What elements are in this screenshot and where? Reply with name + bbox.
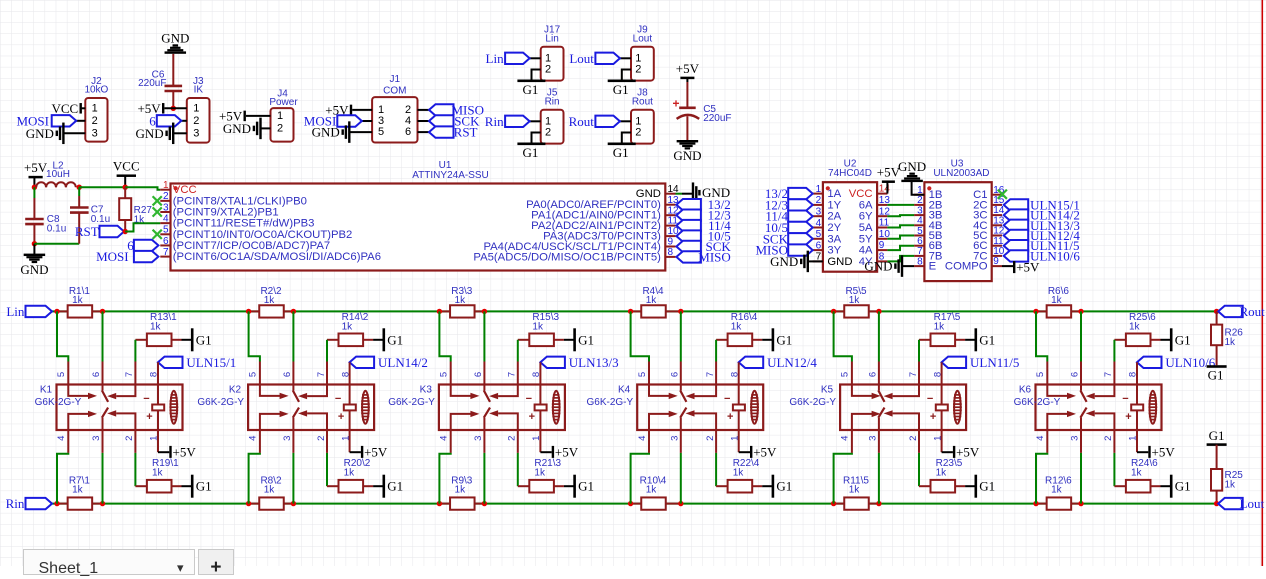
- junction bottom rail right K3: [482, 501, 487, 506]
- resistor R8\2: [249, 497, 294, 509]
- net port ULN10/6 at K6 pin 8: [1137, 355, 1216, 370]
- svg-text:1: 1: [816, 184, 822, 195]
- junction top rail right K3: [482, 309, 487, 314]
- ground G1 at R19\1: [191, 475, 212, 498]
- op-amp U3 ULN2003AD body: [924, 182, 991, 281]
- wire K3 pin 4 to rail: [439, 430, 450, 504]
- junction top rail right K4: [678, 309, 683, 314]
- svg-text:6: 6: [91, 372, 102, 377]
- label R22\4 1k: [733, 458, 760, 479]
- wire R14\2 to K2 pin 7: [326, 340, 328, 385]
- svg-text:6: 6: [282, 372, 293, 377]
- label C8 0.1u: [47, 214, 66, 234]
- svg-text:+: +: [727, 411, 733, 423]
- svg-text:G6K-2G-Y: G6K-2G-Y: [1014, 397, 1061, 408]
- svg-text:1: 1: [635, 52, 641, 64]
- svg-text:RST: RST: [75, 224, 99, 239]
- junction top rail right K6: [1078, 309, 1083, 314]
- svg-text:Lout: Lout: [569, 51, 594, 66]
- svg-text:+5V: +5V: [1152, 444, 1176, 459]
- capacitor C6: [165, 54, 183, 109]
- svg-text:8: 8: [1128, 372, 1139, 377]
- svg-text:MOSI: MOSI: [96, 249, 129, 264]
- ground G1 at R14\2: [383, 328, 404, 351]
- ground GND above C6: [161, 31, 189, 54]
- ground GND at J4 pin 2: [223, 118, 262, 139]
- svg-text:9: 9: [879, 240, 885, 251]
- svg-text:Rin: Rin: [485, 114, 504, 129]
- svg-text:7: 7: [908, 372, 919, 377]
- svg-text:1k: 1k: [72, 485, 84, 496]
- wire U1 pin 14 to GND: [676, 193, 694, 195]
- ground GND at J3 pin 3: [136, 123, 175, 145]
- svg-text:+5V: +5V: [173, 444, 197, 459]
- svg-text:8: 8: [531, 372, 542, 377]
- wire R20\2 to G1: [373, 485, 383, 487]
- net port ULN12/4 at K4 pin 8: [739, 355, 818, 370]
- svg-text:Lout: Lout: [1240, 496, 1265, 511]
- wire K3 pin 3 to rail: [483, 430, 485, 504]
- svg-text:1k: 1k: [1131, 468, 1143, 479]
- label R1\1 1k: [69, 286, 91, 306]
- net port Lin at J17 pin 1: [486, 51, 530, 66]
- resistor R16\4: [716, 334, 762, 347]
- junction top rail right K2: [291, 309, 296, 314]
- svg-text:2: 2: [545, 127, 551, 139]
- junction at J3 pin1 / C6: [171, 106, 176, 111]
- ground G1 at R16\4: [772, 328, 793, 351]
- wire L2 to VCC node: [79, 186, 125, 188]
- svg-text:5: 5: [248, 372, 259, 377]
- junction L2 / C7 node: [77, 185, 82, 190]
- svg-text:2: 2: [545, 64, 551, 76]
- resistor R2\2: [249, 305, 294, 317]
- svg-text:7: 7: [124, 372, 135, 377]
- ground G1 above R25: [1207, 428, 1227, 446]
- junction Lout: [1214, 501, 1219, 506]
- svg-text:8: 8: [668, 247, 674, 258]
- junction top rail left K5: [831, 309, 836, 314]
- svg-text:K6: K6: [1019, 385, 1032, 396]
- label U3 ULN2003AD: [933, 158, 989, 179]
- label K5 G6K-2G-Y: [789, 385, 836, 408]
- net flag +5V at K6 pin 1: [1137, 430, 1175, 459]
- svg-text:7: 7: [705, 372, 716, 377]
- svg-text:VCC: VCC: [113, 159, 140, 174]
- net flag +5V at K1 pin 1: [158, 430, 196, 459]
- svg-text:3: 3: [193, 127, 199, 139]
- relay K1 G6K-2G-Y body: [57, 385, 183, 431]
- label L2 10uH: [46, 161, 70, 180]
- add sheet button: [198, 549, 234, 575]
- svg-text:1k: 1k: [849, 485, 861, 496]
- ground GND below C8: [20, 254, 48, 277]
- junction top rail left K2: [246, 309, 251, 314]
- wire ULN10/6 to K6 pin 8: [1136, 362, 1138, 384]
- wire K5 pin 3 to rail: [878, 430, 880, 504]
- net port ULN11/5 at U3 pin 11: [1004, 238, 1080, 253]
- net port Rout: [1218, 304, 1265, 319]
- label C7 0.1u: [91, 205, 110, 225]
- svg-text:1k: 1k: [455, 485, 467, 496]
- svg-text:−: −: [526, 393, 532, 405]
- net port MOSI at J2 pin 2: [16, 113, 76, 128]
- U1 right pin numbers: [668, 184, 680, 258]
- svg-text:GND: GND: [136, 126, 164, 141]
- svg-text:Lin: Lin: [545, 34, 558, 45]
- svg-text:1k: 1k: [1225, 480, 1237, 491]
- svg-text:1: 1: [545, 52, 551, 64]
- wire rail to K2 pin 6: [292, 311, 294, 384]
- svg-text:0.1u: 0.1u: [47, 223, 66, 234]
- wire R14\2 to G1: [373, 339, 383, 341]
- label K1 G6K-2G-Y: [35, 385, 82, 408]
- ground G1 at R23\5: [975, 475, 996, 498]
- label R26 1k: [1225, 328, 1244, 349]
- svg-text:2: 2: [816, 195, 822, 206]
- svg-text:5A: 5A: [859, 222, 873, 234]
- label R23\5 1k: [936, 458, 963, 479]
- capacitor C5: [672, 97, 699, 141]
- ground G1 at R24\6: [1170, 475, 1191, 498]
- wire C8 to C7 bottom: [34, 243, 79, 245]
- svg-text:−: −: [927, 393, 933, 405]
- net port MISO at J1 pin 2: [429, 102, 484, 117]
- net flag VCC: [113, 159, 140, 177]
- ground G1 at R20\2: [383, 475, 404, 498]
- svg-text:GND: GND: [827, 256, 852, 268]
- label R21\3 1k: [534, 458, 561, 479]
- svg-text:GND: GND: [864, 259, 892, 274]
- svg-text:1k: 1k: [72, 295, 84, 306]
- wire ULN15/1 to K1 pin 8: [157, 362, 159, 384]
- U1 left pin names: [173, 184, 381, 263]
- junction top rail left K1: [54, 309, 59, 314]
- U2 right pin numbers: [879, 184, 891, 263]
- wire +5V stem: [33, 177, 35, 187]
- relay K5 G6K-2G-Y body: [840, 385, 966, 431]
- svg-text:G1: G1: [578, 479, 594, 494]
- svg-text:4: 4: [840, 436, 851, 441]
- label C6 220uF: [138, 70, 166, 89]
- svg-text:9: 9: [668, 237, 674, 248]
- K4 pin numbers: [637, 372, 741, 441]
- svg-text:GND: GND: [20, 262, 48, 277]
- svg-text:74HC04D: 74HC04D: [828, 168, 872, 179]
- K1 pin numbers: [56, 372, 160, 441]
- svg-text:RST: RST: [454, 125, 478, 140]
- junction top rail left K6: [1033, 309, 1038, 314]
- label K3 G6K-2G-Y: [388, 385, 435, 408]
- net port MISO at U2 pin 6: [755, 243, 812, 258]
- K2 pin numbers: [248, 372, 352, 441]
- svg-text:+: +: [529, 411, 535, 423]
- net port ULN14/2 at U3 pin 14: [1004, 208, 1080, 223]
- net port Rin: [6, 496, 52, 511]
- svg-text:G1: G1: [578, 332, 594, 347]
- svg-text:6: 6: [670, 372, 681, 377]
- label J9 Lout: [633, 24, 653, 44]
- svg-text:7: 7: [1103, 372, 1114, 377]
- junction top rail right K5: [876, 309, 881, 314]
- svg-text:1k: 1k: [1051, 295, 1063, 306]
- svg-text:+: +: [1125, 411, 1131, 423]
- net flag +5V at U2 pin 14: [877, 165, 901, 194]
- U2 right pin names: [849, 188, 873, 268]
- U2 left pin numbers: [816, 184, 822, 263]
- wire K4 pin 3 to rail: [680, 430, 682, 504]
- wire rail to K4 pin 6: [680, 311, 682, 384]
- J1 pin numbers: [378, 104, 411, 138]
- junction bottom rail left K2: [246, 501, 251, 506]
- connector J9: [620, 47, 654, 81]
- junction bottom rail right K4: [678, 501, 683, 506]
- label C5 220uF: [703, 104, 731, 124]
- svg-text:1: 1: [635, 115, 641, 127]
- net port ULN12/4 at U3 pin 12: [1004, 228, 1081, 243]
- svg-text:3: 3: [473, 436, 484, 441]
- net flag +5V at K3 pin 1: [540, 430, 578, 459]
- svg-text:2: 2: [1103, 436, 1114, 441]
- svg-text:MISO: MISO: [698, 249, 731, 264]
- resistor R25: [1211, 445, 1222, 504]
- resistor R5\5: [834, 305, 879, 317]
- U3 right pin stubs: [992, 195, 1002, 266]
- svg-text:GND: GND: [898, 159, 926, 174]
- U3 no-connect mark pin 16: [998, 190, 1007, 199]
- svg-text:GND: GND: [770, 254, 798, 269]
- resistor R15\3: [518, 334, 564, 347]
- wire R17\5 to G1: [965, 339, 975, 341]
- wire RST node to U1 pin 4: [125, 223, 160, 231]
- net flag +5V at K2 pin 1: [350, 430, 388, 459]
- svg-text:7: 7: [507, 372, 518, 377]
- svg-text:−: −: [143, 393, 149, 405]
- svg-text:ULN13/3: ULN13/3: [569, 355, 619, 370]
- wire K1 pin 2 to R19\1: [135, 430, 147, 486]
- label R5\5 1k: [845, 286, 867, 306]
- label R20\2 1k: [344, 458, 371, 479]
- net port ULN15/1 at U3 pin 15: [1004, 197, 1080, 212]
- svg-text:2: 2: [507, 436, 518, 441]
- wire R16\4 to G1: [762, 339, 772, 341]
- wire K6 pin 3 to rail: [1080, 430, 1082, 504]
- U2 left pin stubs: [813, 194, 823, 262]
- net flag +5V at J1 pin 1: [325, 102, 352, 117]
- svg-text:1k: 1k: [342, 321, 354, 332]
- resistor R14\2: [327, 334, 373, 347]
- wire K2 pin 2 to R20\2: [327, 430, 339, 486]
- label J1 COM: [383, 74, 406, 97]
- inductor L2: [36, 182, 76, 187]
- net port ULN10/6 at U3 pin 10: [1004, 248, 1081, 263]
- J9 pin numbers: [635, 52, 641, 75]
- svg-text:6: 6: [1070, 372, 1081, 377]
- wire rail to K5 pin 6: [878, 311, 880, 384]
- svg-text:3: 3: [163, 202, 169, 213]
- svg-text:7: 7: [316, 372, 327, 377]
- junction top rail left K3: [437, 309, 442, 314]
- svg-text:1k: 1k: [646, 295, 658, 306]
- svg-text:G6K-2G-Y: G6K-2G-Y: [35, 397, 82, 408]
- label J17 Lin: [544, 24, 561, 44]
- wire K3 pin 2 to R21\3: [518, 430, 530, 486]
- net port Lin: [6, 304, 52, 319]
- svg-text:1k: 1k: [1051, 485, 1063, 496]
- K3 pin numbers: [439, 372, 543, 441]
- connector J3: [165, 98, 210, 143]
- svg-text:2: 2: [193, 115, 199, 127]
- svg-text:2: 2: [163, 191, 169, 202]
- ground G1 at J8 pin 2: [608, 143, 636, 160]
- ground G1 at J17 pin 2: [517, 80, 545, 97]
- wire rail to K6 pin 5: [1036, 311, 1047, 384]
- label R6\6 1k: [1048, 286, 1070, 306]
- svg-text:4: 4: [637, 436, 648, 441]
- U1 right pin names: [473, 188, 661, 263]
- relay K3 G6K-2G-Y body: [439, 385, 565, 431]
- connector J1: [349, 97, 429, 142]
- capacitor C8: [25, 187, 44, 244]
- wire rail to K6 pin 6: [1080, 311, 1082, 384]
- net port 12/3 at U2 pin 2: [765, 197, 813, 212]
- wire K1 pin 4 to rail: [57, 430, 68, 504]
- label R25\6 1k: [1129, 312, 1156, 333]
- net port 6 at J3 pin 2: [149, 113, 181, 128]
- net port Rin at J5 pin 1: [485, 114, 530, 129]
- net flag +5V at J3 pin 1: [137, 101, 164, 116]
- net port RST: [75, 224, 124, 239]
- svg-text:8: 8: [340, 372, 351, 377]
- J8 pin numbers: [635, 115, 641, 138]
- svg-text:5: 5: [840, 372, 851, 377]
- svg-text:G1: G1: [613, 82, 629, 97]
- svg-text:4: 4: [56, 436, 67, 441]
- svg-text:2: 2: [635, 64, 641, 76]
- resistor R1\1: [57, 305, 103, 317]
- svg-text:3: 3: [868, 436, 879, 441]
- svg-text:Rout: Rout: [1240, 304, 1266, 319]
- resistor R24\6: [1126, 480, 1161, 493]
- resistor R21\3: [529, 480, 564, 493]
- svg-text:G1: G1: [522, 145, 538, 160]
- svg-text:+: +: [930, 411, 936, 423]
- wire rail to K1 pin 5: [57, 311, 68, 384]
- svg-text:1k: 1k: [936, 468, 948, 479]
- svg-text:1k: 1k: [733, 468, 745, 479]
- svg-text:K3: K3: [420, 385, 433, 396]
- wire R15\3 to G1: [564, 339, 574, 341]
- wire ULN12/4 to K4 pin 8: [738, 362, 740, 384]
- wire R22\4 to G1: [762, 485, 772, 487]
- svg-text:8: 8: [917, 256, 923, 267]
- svg-text:5: 5: [163, 225, 169, 236]
- svg-text:5: 5: [439, 372, 450, 377]
- wire K6 pin 2 to R24\6: [1114, 430, 1126, 486]
- label R11\5 1k: [843, 475, 869, 495]
- svg-text:2: 2: [635, 127, 641, 139]
- ground G1 at R22\4: [772, 475, 793, 498]
- svg-text:K1: K1: [40, 385, 53, 396]
- svg-text:4A: 4A: [859, 245, 873, 257]
- svg-text:8: 8: [729, 372, 740, 377]
- svg-text:1k: 1k: [1225, 337, 1237, 348]
- wire top rail Lin to Rout: [52, 310, 1217, 312]
- U1 right pin stubs: [665, 194, 675, 257]
- svg-text:G6K-2G-Y: G6K-2G-Y: [388, 397, 435, 408]
- junction C8 / GND: [32, 241, 37, 246]
- relay K6 G6K-2G-Y body: [1036, 385, 1162, 431]
- svg-text:2: 2: [908, 436, 919, 441]
- wire VCC node to U1 pin 1: [125, 187, 160, 190]
- junction bottom rail left K5: [831, 501, 836, 506]
- junction bottom rail right K6: [1078, 501, 1083, 506]
- svg-text:6: 6: [868, 372, 879, 377]
- wire C8 to GND: [33, 244, 35, 254]
- wire K4 pin 4 to rail: [631, 430, 649, 504]
- resistor R4\4: [631, 305, 681, 317]
- sheet tab Sheet_1: [23, 549, 195, 575]
- U3 left pin numbers: [917, 185, 923, 267]
- svg-text:5: 5: [378, 126, 384, 138]
- label U1 ATTINY24A-SSU: [412, 160, 489, 181]
- resistor R25\6: [1114, 334, 1160, 347]
- junction bottom rail left K1: [54, 501, 59, 506]
- resistor R9\3: [439, 497, 484, 509]
- wire K2 pin 3 to rail: [292, 430, 294, 504]
- net port ULN13/3 at K3 pin 8: [540, 355, 618, 370]
- svg-text:+5V: +5V: [364, 444, 388, 459]
- svg-text:3: 3: [91, 436, 102, 441]
- label R19\1 1k: [152, 458, 179, 479]
- label K6 G6K-2G-Y: [1014, 385, 1061, 408]
- svg-text:1k: 1k: [532, 321, 544, 332]
- U3 right pin names: [945, 189, 988, 272]
- op-amp U2 74HC04D body: [823, 182, 877, 272]
- svg-text:G1: G1: [196, 332, 212, 347]
- svg-text:1: 1: [92, 102, 98, 114]
- net port MOSI to U1 pin 7: [96, 249, 158, 264]
- resistor R17\5: [919, 334, 965, 347]
- label R27 1k: [134, 205, 153, 226]
- svg-text:K5: K5: [821, 385, 834, 396]
- net port 11/4 at U2 pin 3: [765, 209, 812, 224]
- svg-text:4: 4: [439, 436, 450, 441]
- ground GND at U3 pin 8: [864, 255, 914, 277]
- wire R19\1 to G1: [182, 485, 192, 487]
- svg-text:1k: 1k: [344, 468, 356, 479]
- net port MISO at U1 pin 8: [676, 249, 730, 264]
- ground GND below C5: [673, 140, 701, 163]
- J17 pin numbers: [545, 52, 551, 75]
- svg-text:4: 4: [1035, 436, 1046, 441]
- ground G1 at J5 pin 2: [517, 143, 545, 160]
- net port MOSI at J1 pin 3: [304, 114, 362, 129]
- svg-text:1k: 1k: [1129, 321, 1141, 332]
- net port 10/5 at U2 pin 4: [765, 220, 813, 235]
- svg-text:G6K-2G-Y: G6K-2G-Y: [587, 397, 634, 408]
- svg-text:6: 6: [163, 236, 169, 247]
- svg-text:Lout: Lout: [633, 34, 653, 45]
- junction +5V / L2 / C8: [32, 185, 37, 190]
- ground G1 at R15\3: [573, 328, 594, 351]
- wire R25\6 to K6 pin 7: [1113, 340, 1115, 385]
- svg-text:G1: G1: [776, 479, 792, 494]
- sheet border: [1261, 0, 1263, 566]
- wire ULN13/3 to K3 pin 8: [539, 362, 541, 384]
- junction bottom rail right K1: [100, 501, 105, 506]
- svg-text:Lin: Lin: [486, 51, 505, 66]
